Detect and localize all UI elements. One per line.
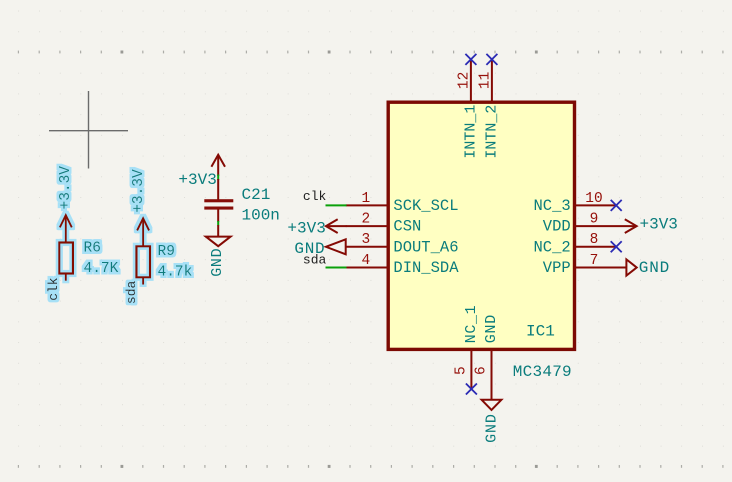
svg-text:CSN: CSN	[393, 218, 421, 236]
wire clk to pin 1	[326, 204, 347, 206]
no-connect X at pin 11	[486, 54, 497, 65]
svg-text:VDD: VDD	[543, 218, 571, 236]
svg-text:sda: sda	[124, 280, 139, 304]
pin 2 CSN	[346, 212, 422, 236]
svg-text:100n: 100n	[242, 207, 280, 225]
svg-text:GND: GND	[209, 248, 226, 277]
pin 3 DOUT_A6	[346, 232, 459, 256]
wire stub below R9	[142, 277, 144, 284]
ground symbol at pin 7 (triangle right)	[626, 259, 636, 275]
svg-text:clk: clk	[303, 189, 327, 204]
no-connect X at pin 8	[611, 241, 622, 252]
svg-text:7: 7	[590, 253, 599, 269]
ground symbol below C21	[206, 225, 231, 246]
svg-text:GND: GND	[484, 413, 501, 443]
ground symbol at pin 3 (triangle left)	[326, 239, 346, 254]
no-connect X at pin 12	[465, 54, 476, 65]
svg-text:12: 12	[457, 72, 473, 89]
pin 12 INTN_1	[457, 59, 480, 158]
wire stub below R6	[65, 274, 67, 281]
svg-text:3: 3	[361, 232, 370, 248]
svg-text:5: 5	[454, 366, 470, 375]
svg-text:VPP: VPP	[543, 259, 571, 277]
pin 10 NC_3	[533, 191, 615, 215]
svg-text:+3V3: +3V3	[178, 171, 216, 189]
pin 7 VPP	[543, 253, 627, 277]
power symbol +3.3V at R9	[137, 218, 149, 246]
pin 1 SCK_SCL	[346, 191, 459, 215]
pin 9 VDD	[543, 212, 637, 236]
svg-text:GND: GND	[483, 314, 500, 343]
svg-text:R6: R6	[84, 240, 101, 256]
svg-text:2: 2	[361, 212, 370, 228]
pin 8 NC_2	[533, 232, 615, 256]
svg-text:+3V3: +3V3	[640, 215, 678, 233]
resistor R9 body	[136, 246, 150, 277]
svg-text:DOUT_A6: DOUT_A6	[393, 238, 458, 256]
svg-text:clk: clk	[46, 277, 61, 301]
svg-text:+3V3: +3V3	[287, 220, 325, 238]
svg-text:10: 10	[585, 191, 602, 207]
power symbol +3V3 at pin 9 (arrow right)	[625, 219, 637, 233]
svg-text:NC_3: NC_3	[533, 197, 570, 215]
svg-text:R9: R9	[158, 244, 175, 260]
svg-text:1: 1	[361, 191, 370, 207]
svg-text:IC1: IC1	[526, 323, 555, 341]
pin 4 DIN_SDA	[346, 253, 459, 277]
svg-text:DIN_SDA: DIN_SDA	[393, 259, 459, 277]
ground symbol below pin 6	[482, 400, 502, 410]
resistor R6 body	[59, 243, 73, 274]
no-connect X at pin 10	[611, 200, 622, 211]
cursor crosshair	[49, 91, 128, 169]
svg-text:+3.3V: +3.3V	[131, 169, 147, 213]
no-connect X at pin 5	[466, 384, 477, 395]
svg-text:8: 8	[590, 232, 599, 248]
svg-text:INTN_1: INTN_1	[462, 105, 479, 159]
svg-text:GND: GND	[639, 259, 670, 277]
power symbol +3.3V at R6	[60, 215, 72, 242]
svg-text:MC3479: MC3479	[513, 363, 572, 381]
svg-text:4.7k: 4.7k	[158, 265, 193, 281]
pin 5 NC_1	[454, 305, 480, 389]
grid strong row y=466	[18, 465, 724, 468]
svg-text:sda: sda	[303, 253, 327, 268]
svg-text:11: 11	[478, 72, 494, 89]
IC1 MC3479 body	[388, 102, 574, 349]
svg-text:+3.3V: +3.3V	[58, 166, 74, 210]
power symbol +3V3 at pin 2 (arrow left)	[326, 219, 347, 233]
power symbol +3V3 above C21	[211, 155, 225, 176]
pin 6 GND	[474, 314, 500, 400]
svg-text:NC_2: NC_2	[533, 238, 570, 256]
svg-text:6: 6	[474, 366, 490, 375]
wire sda to pin 4	[326, 267, 347, 269]
wire C21 to GND	[217, 221, 219, 226]
svg-text:NC_1: NC_1	[463, 305, 480, 343]
svg-text:C21: C21	[242, 186, 271, 204]
capacitor C21	[204, 179, 233, 222]
svg-text:4.7K: 4.7K	[84, 261, 119, 277]
wire power to C21	[217, 175, 219, 181]
svg-text:4: 4	[361, 253, 370, 269]
resistor R9 (selected, with halo)	[124, 169, 192, 304]
svg-text:INTN_2: INTN_2	[483, 105, 500, 159]
grid strong row y=52	[18, 51, 724, 54]
svg-text:SCK_SCL: SCK_SCL	[393, 197, 458, 215]
svg-text:9: 9	[590, 212, 599, 228]
pin 11 INTN_2	[478, 59, 501, 158]
resistor R6 (selected, with halo)	[46, 166, 118, 301]
